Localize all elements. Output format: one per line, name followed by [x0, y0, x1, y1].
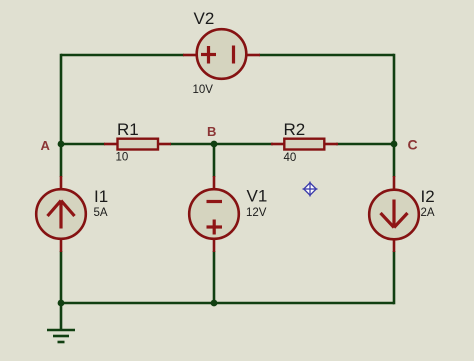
resistor R2: [271, 139, 338, 150]
junction bottom middle: [211, 300, 218, 307]
wire left vertical from node A to I1 top pin: [60, 144, 63, 177]
current source I1: [36, 176, 86, 252]
wire middle horizontal from R2 right pin to node C: [336, 143, 394, 146]
current source I2: [369, 176, 419, 252]
svg-text:B: B: [207, 124, 216, 139]
origin marker: [303, 182, 318, 197]
svg-text:R1: R1: [117, 120, 139, 139]
wire right vertical from top rail to node C: [393, 54, 396, 144]
svg-text:5A: 5A: [94, 207, 108, 219]
wire middle vertical from V1 bottom pin to bottom rail: [213, 251, 216, 303]
svg-text:I2: I2: [421, 187, 435, 206]
svg-text:R2: R2: [284, 120, 306, 139]
junction bottom left: [58, 300, 65, 307]
ground: [47, 303, 75, 342]
svg-text:40: 40: [284, 152, 297, 164]
wire right vertical from node C to I2 top pin: [393, 144, 396, 177]
junction node A: [58, 141, 65, 148]
wire middle vertical from node B to V1 top pin: [213, 144, 216, 177]
voltage source V1: [189, 176, 239, 252]
wire middle horizontal from node B to R2 left pin: [214, 143, 273, 146]
svg-text:2A: 2A: [421, 207, 435, 219]
wire top rail from V2 right pin to node C column: [259, 54, 394, 57]
wire left vertical from I1 bottom pin to bottom rail: [60, 251, 63, 303]
svg-text:C: C: [408, 136, 418, 152]
wire left vertical from top rail to node A: [60, 54, 63, 144]
svg-text:10: 10: [116, 151, 129, 163]
svg-text:12V: 12V: [246, 207, 267, 219]
junction node C: [391, 141, 398, 148]
svg-text:I1: I1: [94, 187, 108, 206]
wire middle horizontal from node A to R1 left pin: [61, 143, 105, 146]
resistor R1: [104, 139, 171, 150]
wire top rail from node A column to V2 left pin: [61, 54, 184, 57]
wire right vertical from I2 bottom pin to bottom rail: [393, 251, 396, 304]
svg-text:V2: V2: [194, 9, 215, 28]
junction node B: [211, 141, 218, 148]
wire bottom rail: [61, 302, 394, 305]
svg-text:V1: V1: [247, 187, 268, 206]
wire middle horizontal from R1 right pin to node B: [170, 143, 214, 146]
svg-text:10V: 10V: [193, 84, 214, 96]
voltage source V2: [183, 29, 260, 79]
svg-text:A: A: [41, 138, 51, 153]
